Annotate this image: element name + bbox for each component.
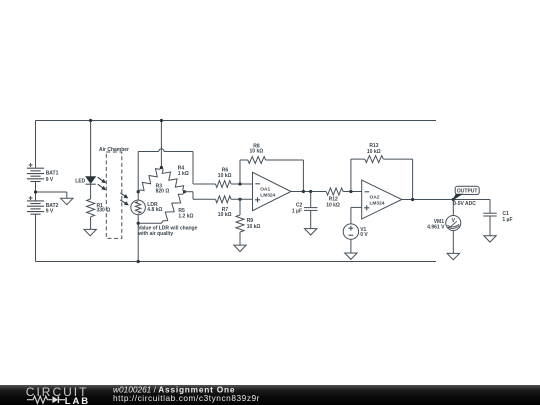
svg-text:http://circuitlab.com/c3tyncn8: http://circuitlab.com/c3tyncn839z9r (113, 392, 260, 402)
svg-text:10 kΩ: 10 kΩ (367, 149, 381, 155)
svg-text:Air Chamber: Air Chamber (99, 147, 129, 153)
svg-text:10 kΩ: 10 kΩ (326, 202, 340, 208)
svg-text:1 µF: 1 µF (292, 208, 302, 214)
svg-text:0-5V ADC: 0-5V ADC (453, 201, 476, 207)
svg-text:with air quality: with air quality (137, 231, 173, 237)
svg-text:9 V: 9 V (46, 177, 54, 183)
svg-text:LED: LED (75, 179, 85, 185)
svg-text:10 kΩ: 10 kΩ (218, 173, 232, 179)
svg-text:LM324: LM324 (370, 201, 385, 207)
svg-text:10 kΩ: 10 kΩ (218, 212, 232, 218)
svg-text:0 V: 0 V (360, 232, 368, 238)
svg-text:9 V: 9 V (46, 208, 54, 214)
svg-text:10 kΩ: 10 kΩ (247, 224, 261, 230)
svg-text:OUTPUT: OUTPUT (457, 189, 478, 195)
svg-text:1.2 kΩ: 1.2 kΩ (178, 214, 193, 220)
svg-text:LM324: LM324 (260, 193, 275, 199)
svg-text:LAB: LAB (65, 396, 90, 405)
svg-text:OA1: OA1 (260, 187, 270, 193)
svg-text:330 Ω: 330 Ω (97, 207, 111, 213)
svg-text:1 kΩ: 1 kΩ (178, 171, 189, 177)
svg-text:820 Ω: 820 Ω (156, 189, 170, 195)
svg-text:10 kΩ: 10 kΩ (250, 149, 264, 155)
svg-text:4.961 V: 4.961 V (427, 225, 445, 231)
svg-text:OA2: OA2 (370, 195, 380, 201)
svg-text:1 µF: 1 µF (502, 217, 512, 223)
svg-text:BAT1: BAT1 (46, 171, 59, 177)
svg-text:4.8 kΩ: 4.8 kΩ (147, 207, 162, 213)
